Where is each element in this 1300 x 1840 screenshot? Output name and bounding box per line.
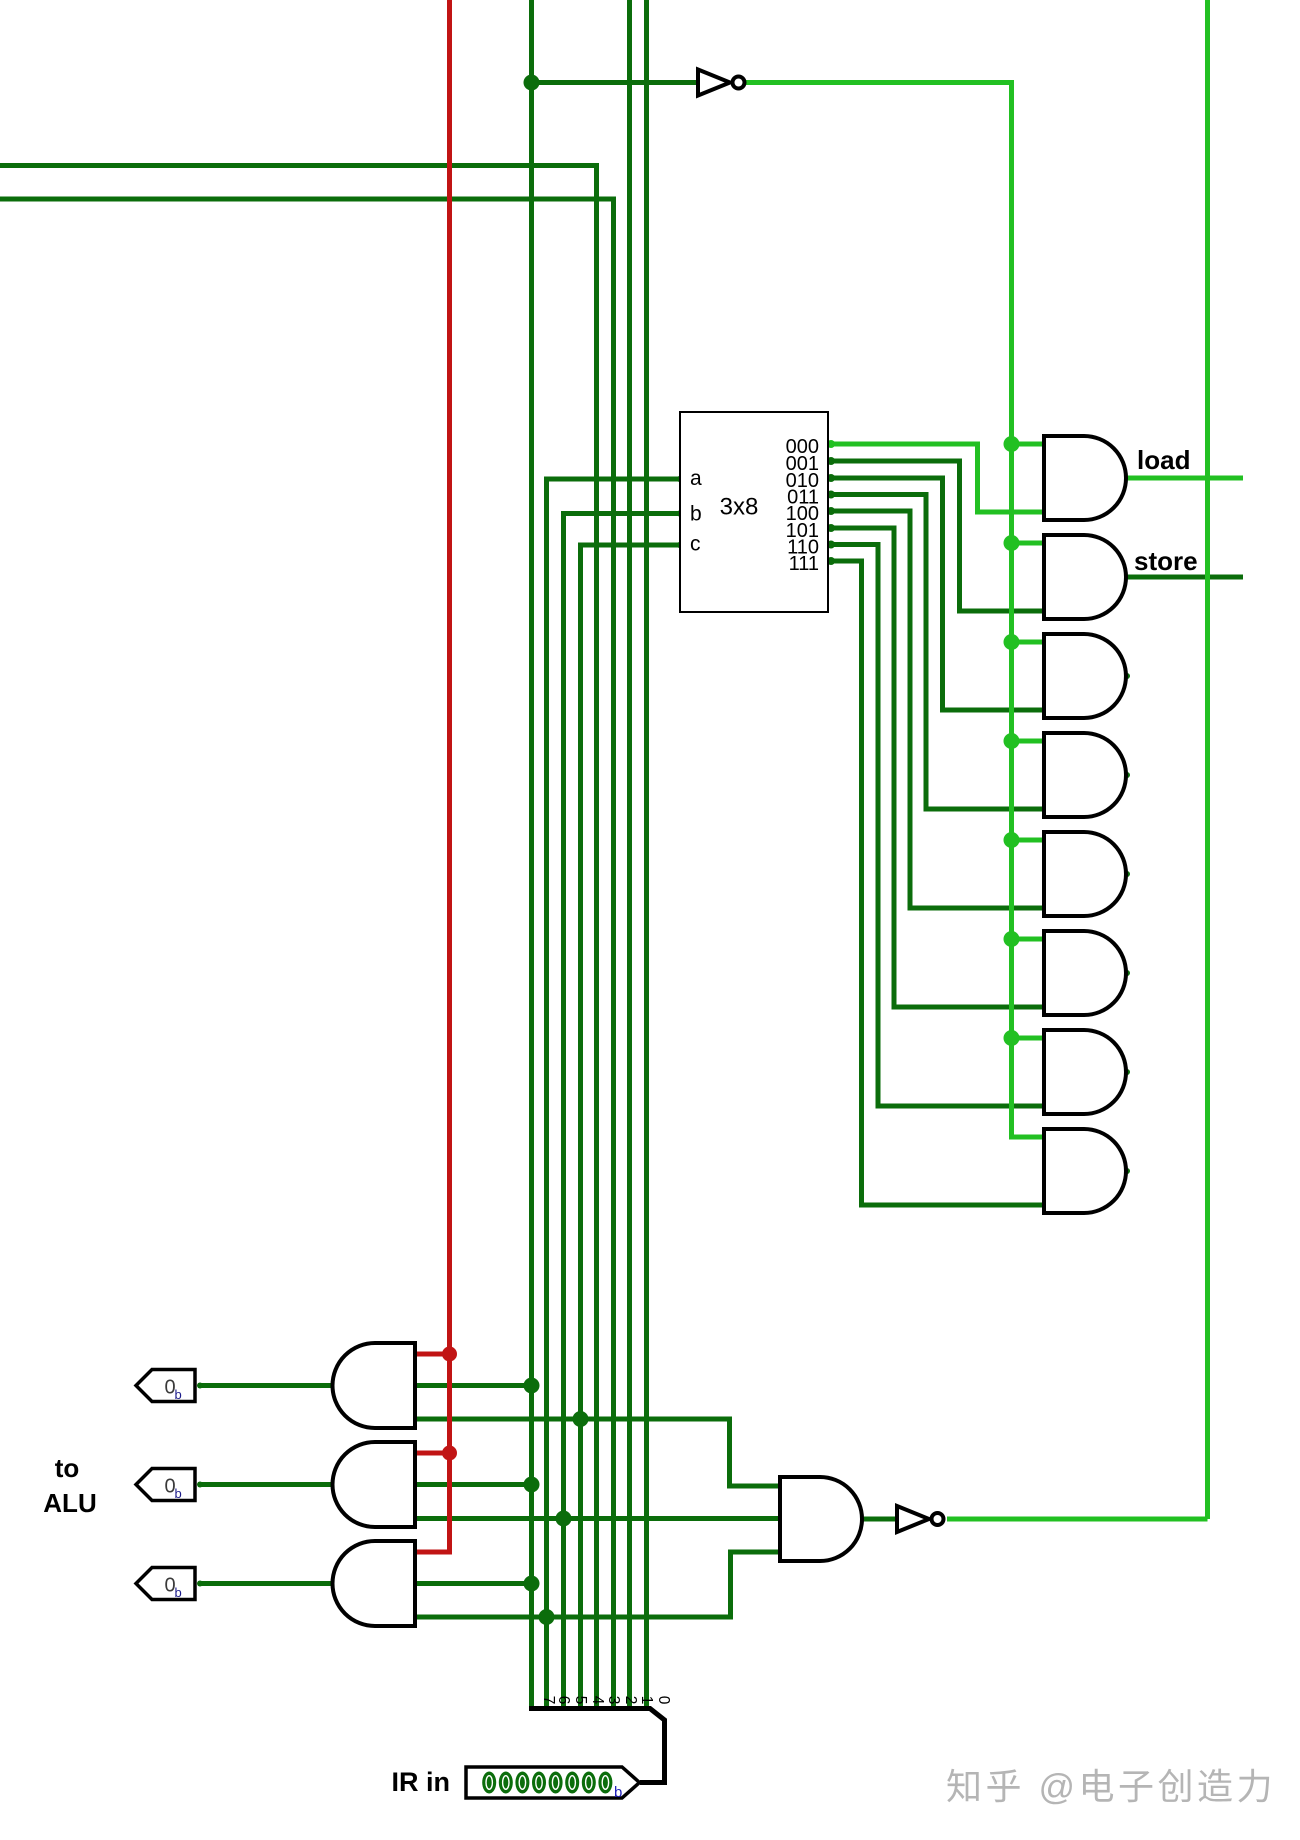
pin dot P2 <box>197 1482 203 1488</box>
WIRES_LIGHT <box>744 0 1243 1519</box>
node rail / gate7 stub <box>1004 1030 1020 1046</box>
wire output pin P2 to gate L2 <box>198 1482 334 1487</box>
splitter bit labels 7..0 rotated <box>540 1696 672 1705</box>
output pin P1 <box>136 1370 195 1402</box>
inverter U3 bubble <box>932 1513 944 1525</box>
decoder output pin 011 <box>827 491 835 499</box>
svg-text:load: load <box>1137 445 1190 475</box>
IR bit1 oval <box>582 1772 596 1794</box>
svg-text:b: b <box>175 1585 182 1600</box>
output dot AND gate8 <box>1124 1168 1130 1174</box>
IR bit6 oval <box>499 1772 513 1794</box>
and-gate G5 <box>1044 832 1126 916</box>
wire rail stub to AND gate4 top input <box>1012 739 1045 744</box>
inverter U3 triangle <box>897 1506 929 1532</box>
node rail / gate2 stub <box>1004 535 1020 551</box>
wire inverter U3 output to right rail <box>947 1517 1208 1522</box>
and-gate L1 (left facing) <box>333 1343 416 1428</box>
and-gate G8 <box>1044 1129 1126 1213</box>
svg-text:b: b <box>690 503 702 526</box>
node bit7 / L1 mid <box>524 1378 540 1394</box>
node bit7 / inverter feed <box>524 75 540 91</box>
decoder output pin 000 <box>827 440 835 448</box>
wire bus bit1 vertical <box>627 0 632 1683</box>
decoder output pin 111 <box>827 557 835 565</box>
output pin P2 <box>136 1469 195 1501</box>
splitter leg 5 <box>561 1683 566 1708</box>
wire bus bit3 vertical + left horizontal feed <box>0 163 597 1683</box>
node bit7 / L2 mid <box>524 1477 540 1493</box>
wire decoder out 110 to AND gate7 lower input <box>830 545 1044 1107</box>
wire to inverter U1 input <box>532 80 699 85</box>
svg-text:2: 2 <box>622 1696 639 1705</box>
decoder input pin c <box>679 542 685 548</box>
node rail / gate6 stub <box>1004 931 1020 947</box>
svg-text:b: b <box>175 1387 182 1402</box>
wire left AND L2 middle input <box>415 1482 532 1487</box>
wire left AND L2 lower input to right AND U2 middle input <box>415 1516 780 1521</box>
IR pin zeros (white oval rings) <box>486 1776 609 1790</box>
node bit6 / L3 lower row <box>539 1609 555 1625</box>
node bit5 / L2 lower row <box>556 1511 572 1527</box>
IR bit0 oval <box>598 1772 612 1794</box>
wire decoder out 011 to AND gate4 lower input <box>830 495 1044 810</box>
svg-text:a: a <box>690 467 702 490</box>
wire rail stub to AND gate5 top input <box>1012 838 1045 843</box>
splitter leg 4 <box>578 1683 583 1708</box>
svg-text:to: to <box>55 1453 80 1483</box>
wire decoder out 000 to AND gate1 lower input <box>830 444 1044 512</box>
decoder input pin b <box>679 511 685 517</box>
svg-text:0: 0 <box>655 1696 672 1705</box>
WIRES_RED <box>415 0 450 1552</box>
svg-text:1: 1 <box>638 1696 655 1705</box>
wire bus bit5 vertical + decoder input b <box>564 514 682 1684</box>
IR bit3 oval <box>549 1772 563 1794</box>
node rail / gate1 stub <box>1004 436 1020 452</box>
decoder output pin 100 <box>827 507 835 515</box>
svg-text:6: 6 <box>555 1696 572 1705</box>
and-gate U2 3-input <box>780 1477 862 1561</box>
decoder output pin 101 <box>827 524 835 532</box>
splitter leg 0 <box>644 1683 649 1708</box>
wire bus bit2 vertical + left horizontal feed <box>0 197 614 1684</box>
pin dot P3 <box>197 1581 203 1587</box>
wire bus bit0 vertical <box>644 0 649 1683</box>
decoder output pin 010 <box>827 474 835 482</box>
output dot AND gate3 <box>1124 673 1130 679</box>
svg-text:4: 4 <box>589 1696 606 1705</box>
wire rail stub to AND gate6 top input <box>1012 937 1045 942</box>
svg-text:b: b <box>175 1486 182 1501</box>
node red / L1 top input <box>442 1347 457 1362</box>
svg-text:ALU: ALU <box>43 1488 96 1518</box>
svg-text:知乎 @电子创造力: 知乎 @电子创造力 <box>946 1766 1276 1807</box>
wire left AND L3 lower input to right AND U2 bottom input <box>415 1552 780 1617</box>
wire left AND L1 lower input to right AND U2 top input <box>415 1419 780 1486</box>
splitter leg 1 <box>627 1683 632 1708</box>
svg-text:3: 3 <box>605 1696 622 1705</box>
wire rail stub to AND gate1 top input <box>1012 442 1045 447</box>
and-gate G4 <box>1044 733 1126 817</box>
splitter leg 2 <box>611 1683 616 1708</box>
node rail / gate4 stub <box>1004 733 1020 749</box>
wire rail stub to AND gate3 top input <box>1012 640 1045 645</box>
wire decoder out 100 to AND gate5 lower input <box>830 511 1044 908</box>
decoder output pin 110 <box>827 541 835 549</box>
splitter leg 6 <box>544 1683 549 1708</box>
svg-text:store: store <box>1134 546 1198 576</box>
node bit7 / L3 mid <box>524 1576 540 1592</box>
wire output pin P3 to gate L3 <box>198 1581 334 1586</box>
splitter leg 7 <box>529 1683 534 1708</box>
wire bus bit4 vertical + decoder input c <box>581 545 682 1683</box>
wire bus bit7 vertical <box>529 0 534 1683</box>
and-gate G7 <box>1044 1030 1126 1114</box>
output dot AND gate4 <box>1124 772 1130 778</box>
splitter spine <box>529 1709 665 1783</box>
wire decoder out 010 to AND gate3 lower input <box>830 478 1044 710</box>
wire load output <box>1126 476 1243 481</box>
output dot AND gate5 <box>1124 871 1130 877</box>
junction dots dark green <box>197 75 1130 1626</box>
wire AND U2 output to inverter U3 <box>862 1517 897 1522</box>
wire left AND L1 middle input <box>415 1383 532 1388</box>
wire output pin P1 to gate L1 <box>198 1383 334 1388</box>
and-gate G2 (store) <box>1044 535 1126 619</box>
wire left AND L3 middle input <box>415 1581 532 1586</box>
input pin IR <box>466 1767 640 1798</box>
IR bit7 oval <box>482 1772 496 1794</box>
wire red stub to gate L2 top input <box>415 1451 450 1456</box>
svg-text:IR in: IR in <box>392 1767 451 1797</box>
output dot AND gate7 <box>1124 1069 1130 1075</box>
output dot AND gate6 <box>1124 970 1130 976</box>
wire bus bit6 vertical + decoder input a <box>547 479 682 1683</box>
svg-text:c: c <box>690 533 701 556</box>
svg-text:111: 111 <box>789 553 819 575</box>
wire-end dots at splitter leg tops <box>529 1681 649 1686</box>
output pin P3 <box>136 1568 195 1600</box>
wire decoder out 101 to AND gate6 lower input <box>830 528 1044 1007</box>
node rail / gate5 stub <box>1004 832 1020 848</box>
wire red stub to gate L1 top input <box>415 1352 450 1357</box>
svg-text:b: b <box>614 1784 622 1801</box>
wire decoder out 111 to AND gate8 lower input <box>830 561 1044 1205</box>
decoder output pin 001 <box>827 457 835 465</box>
and-gate G3 <box>1044 634 1126 718</box>
inverter U1 bubble <box>733 77 745 89</box>
wire inverter U1 output to AND column vertical rail <box>744 83 1044 1138</box>
svg-text:5: 5 <box>572 1696 589 1705</box>
IR value ovals <box>482 1772 612 1794</box>
and-gate L2 (left facing) <box>333 1442 416 1527</box>
svg-text:3x8: 3x8 <box>720 494 759 521</box>
inverter U1 triangle <box>698 70 730 96</box>
wire store output <box>1126 575 1243 580</box>
wire rail stub to AND gate2 top input <box>1012 541 1045 546</box>
splitter leg 3 <box>594 1683 599 1708</box>
decoder U4 3x8 box <box>680 412 828 612</box>
wire red vertical with elbow to gate L3 top input <box>415 0 450 1552</box>
wire rail stub to AND gate7 top input <box>1012 1036 1045 1041</box>
decoder input pin a <box>679 476 685 482</box>
svg-text:7: 7 <box>540 1696 557 1705</box>
wire right rail vertical <box>1205 0 1210 1519</box>
node rail / gate3 stub <box>1004 634 1020 650</box>
IR bit5 oval <box>515 1772 529 1794</box>
and-gate G6 <box>1044 931 1126 1015</box>
pin dot P1 <box>197 1383 203 1389</box>
and-gate G1 (load) <box>1044 436 1126 520</box>
wire decoder out 001 to AND gate2 lower input <box>830 461 1044 611</box>
splitter legs <box>532 1683 647 1708</box>
node red / L2 top input <box>442 1446 457 1461</box>
IR bit2 oval <box>565 1772 579 1794</box>
node bit4 / L1 lower row <box>573 1411 589 1427</box>
IR bit4 oval <box>532 1772 546 1794</box>
and-gate L3 (left facing) <box>333 1541 416 1626</box>
